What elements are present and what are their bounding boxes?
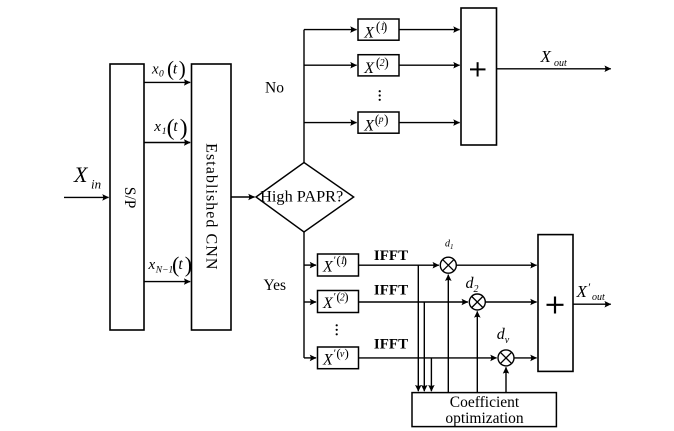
svg-text:No: No (265, 80, 284, 97)
svg-text:): ) (384, 112, 389, 127)
wire No branch to X(P) (304, 122, 357, 124)
multiplier dv (498, 350, 514, 366)
multiplier d2 (469, 294, 485, 310)
svg-text:): ) (179, 57, 186, 81)
svg-text:Yes: Yes (264, 277, 287, 294)
node dv label (497, 326, 510, 346)
svg-text:out: out (592, 292, 605, 303)
svg-text:x: x (148, 257, 156, 273)
svg-text:p: p (378, 115, 384, 125)
svg-text:X: X (363, 118, 375, 135)
block Established CNN (192, 64, 232, 330)
block Coefficient optimization (412, 393, 556, 427)
svg-text:optimization: optimization (445, 410, 524, 427)
wire Yes branch vertical (303, 232, 305, 358)
wire Yes branch to X'(1) (304, 264, 316, 266)
block X'(2) (318, 289, 359, 313)
svg-text:t: t (173, 118, 178, 135)
node dots upper (379, 90, 381, 101)
block X(1) (358, 19, 399, 42)
wire Xout arrow (497, 68, 611, 70)
wire Yes branch to X'(2) (304, 301, 316, 303)
svg-text:): ) (384, 55, 389, 70)
wire d2 to adder2 (485, 301, 536, 303)
wire X'(v) to multiplier dv (359, 357, 497, 359)
wire coefficient box up to d1 (447, 275, 449, 393)
svg-text:X: X (363, 25, 375, 42)
wire No branch to X(2) (304, 64, 357, 66)
svg-text:X: X (363, 60, 375, 77)
svg-text:N−1: N−1 (155, 266, 174, 276)
svg-text:IFFT: IFFT (374, 337, 408, 353)
svg-text:): ) (383, 19, 388, 34)
node dots lower (336, 324, 338, 335)
node Xin label (73, 162, 101, 192)
svg-text:IFFT: IFFT (374, 283, 408, 299)
wire tap1 down to coefficient box (417, 265, 419, 391)
svg-text:t: t (178, 256, 183, 273)
svg-text:S/P: S/P (121, 187, 138, 209)
wire No branch to X(1) (304, 29, 357, 31)
adder block upper (461, 8, 497, 145)
node X'out label (576, 280, 606, 303)
wire X'out arrow (573, 303, 611, 305)
svg-text:in: in (91, 177, 101, 192)
wire Xin input arrow (64, 196, 109, 198)
node xN-1(t) label (148, 252, 193, 277)
svg-text:x: x (151, 62, 159, 78)
wire xN-1(t) arrow S/P to CNN (144, 281, 190, 283)
svg-text:out: out (554, 58, 567, 69)
node Xout label (540, 47, 568, 69)
decision diamond High PAPR? (256, 163, 354, 233)
block X'(v) (318, 345, 359, 368)
svg-text:): ) (344, 289, 348, 304)
wire tap3 down to coefficient box (430, 358, 432, 391)
block X(2) (358, 55, 399, 77)
wire X(2) to adder (399, 64, 460, 66)
wire No branch vertical (303, 30, 305, 163)
svg-text:): ) (343, 252, 347, 267)
wire coefficient box up to dv (505, 367, 507, 392)
node d1 label (445, 239, 454, 252)
wire X(1) to adder (399, 29, 460, 31)
wire coefficient box up to d2 (476, 311, 478, 392)
svg-text:): ) (180, 115, 188, 141)
svg-text:X: X (540, 47, 552, 66)
multiplier d1 (440, 257, 456, 273)
svg-text:′: ′ (588, 280, 591, 294)
node x0(t) label (151, 57, 186, 81)
svg-text:t: t (173, 61, 178, 78)
wire d1 to adder2 (456, 264, 536, 266)
node d2 label (466, 275, 479, 295)
svg-text:X: X (73, 162, 89, 187)
svg-text:IFFT: IFFT (374, 248, 408, 264)
wire x0(t) arrow S/P to CNN (144, 81, 190, 83)
wire X'(2) to multiplier d2 (359, 301, 468, 303)
svg-text:v: v (505, 335, 510, 346)
svg-text:High PAPR?: High PAPR? (260, 187, 343, 206)
wire X'(1) to multiplier d1 (359, 264, 439, 266)
block X(P) (358, 112, 399, 135)
svg-text:1: 1 (450, 243, 454, 251)
wire X(P) to adder (399, 122, 460, 124)
block X'(1) (318, 252, 359, 276)
svg-text:0: 0 (159, 70, 164, 80)
block S/P (110, 64, 144, 330)
svg-text:Established CNN: Established CNN (202, 143, 219, 270)
adder block lower (538, 235, 573, 372)
wire tap2 down to coefficient box (423, 302, 425, 391)
svg-text:): ) (345, 345, 349, 360)
svg-text:2: 2 (474, 284, 479, 295)
node x1(t) label (153, 115, 187, 141)
wire x1(t) arrow S/P to CNN (144, 142, 190, 144)
wire dv to adder2 (514, 357, 537, 359)
wire Yes branch to X'(v) (304, 357, 316, 359)
svg-text:X: X (576, 282, 588, 301)
svg-text:x: x (153, 119, 161, 135)
svg-text:Coefficient: Coefficient (450, 394, 520, 411)
wire CNN to diamond arrow (231, 196, 255, 198)
